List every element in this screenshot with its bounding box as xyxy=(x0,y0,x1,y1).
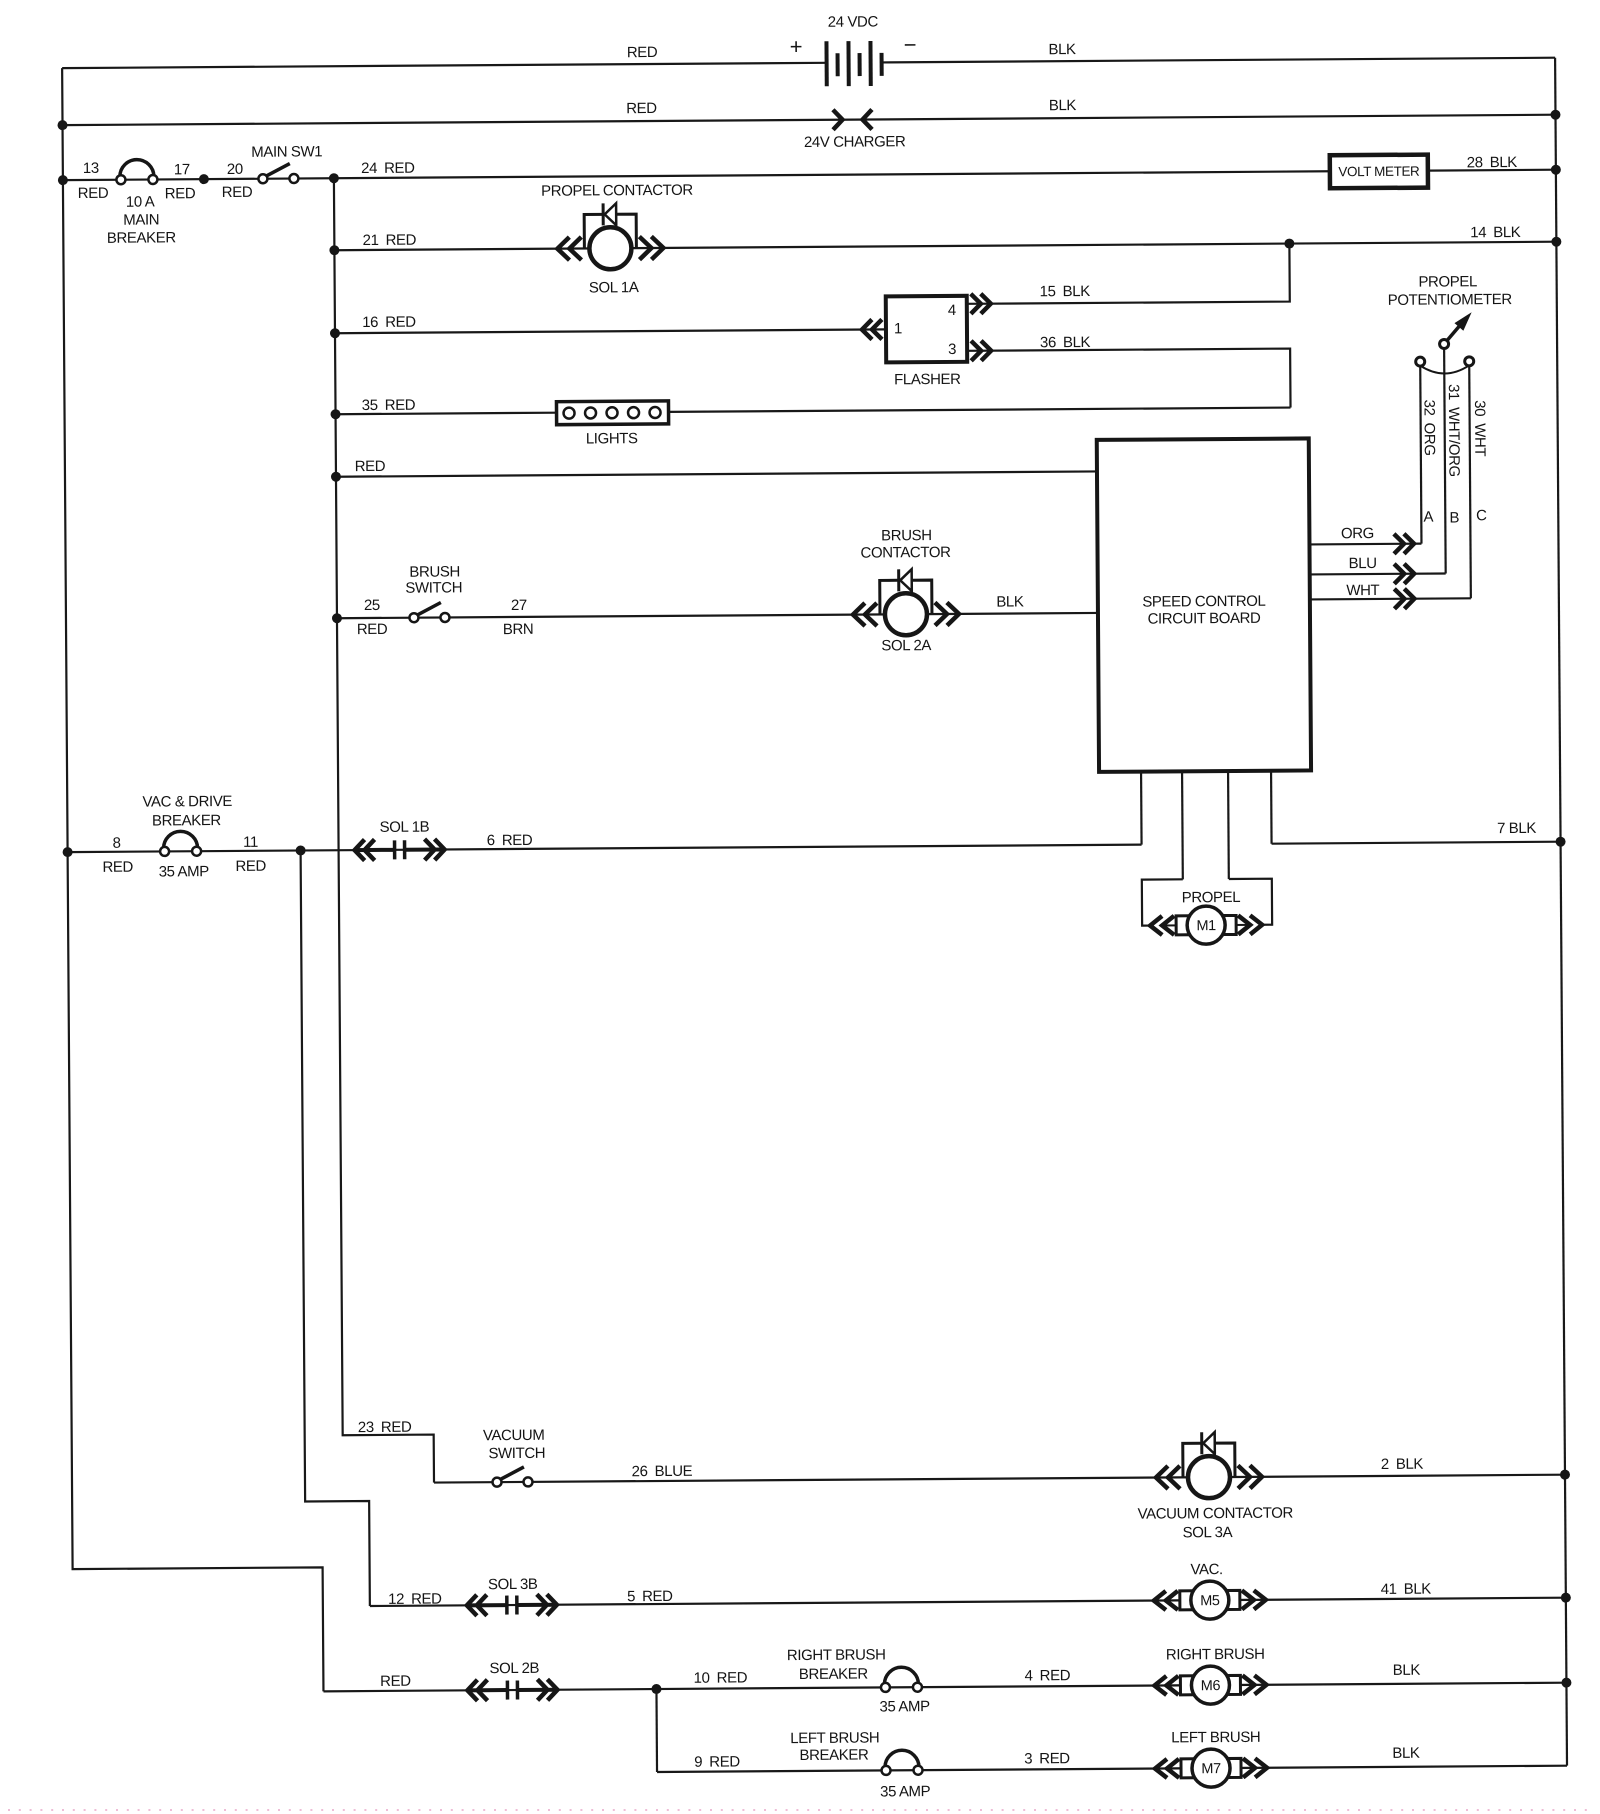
svg-text:35 AMP: 35 AMP xyxy=(159,863,210,880)
svg-text:SOL 1A: SOL 1A xyxy=(589,279,639,296)
svg-text:B: B xyxy=(1449,509,1459,526)
svg-text:17: 17 xyxy=(174,161,190,178)
wire: lights to 36 BLK vertical xyxy=(669,408,1291,412)
svg-text:CIRCUIT BOARD: CIRCUIT BOARD xyxy=(1148,610,1262,628)
svg-text:36 BLK: 36 BLK xyxy=(1040,334,1091,351)
svg-text:RED: RED xyxy=(626,100,657,117)
junction node 7 BLK at right trunk xyxy=(1556,837,1566,847)
svg-text:13: 13 xyxy=(83,160,99,177)
wire: board WHT output xyxy=(1310,598,1471,599)
svg-text:5 RED: 5 RED xyxy=(627,1588,673,1605)
board BLU connector chevrons xyxy=(1394,564,1414,584)
wire: 23 RED vacuum switch line with 26 BLUE to contactor xyxy=(434,1475,1565,1483)
svg-text:POTENTIOMETER: POTENTIOMETER xyxy=(1388,291,1513,309)
svg-text:PROPEL CONTACTOR: PROPEL CONTACTOR xyxy=(541,182,693,200)
junction node trunk B at 35 RED xyxy=(331,409,341,419)
svg-text:7 BLK: 7 BLK xyxy=(1497,820,1536,837)
svg-text:15 BLK: 15 BLK xyxy=(1040,283,1091,300)
svg-text:SOL 1B: SOL 1B xyxy=(380,819,430,836)
svg-text:BLK: BLK xyxy=(1392,1745,1420,1762)
circuit breaker VAC &amp; DRIVE BREAKER 35 AMP xyxy=(160,831,201,856)
svg-text:PROPEL: PROPEL xyxy=(1418,273,1477,290)
board WHT connector chevrons xyxy=(1394,589,1414,609)
wire: RED feed to speed control board xyxy=(336,471,1097,476)
svg-text:SPEED CONTROL: SPEED CONTROL xyxy=(1142,593,1265,611)
svg-text:25: 25 xyxy=(364,597,380,614)
motor M1 PROPEL xyxy=(1150,906,1262,945)
svg-text:SWITCH: SWITCH xyxy=(405,579,462,596)
svg-text:3: 3 xyxy=(948,341,956,358)
svg-text:CONTACTOR: CONTACTOR xyxy=(860,544,951,562)
svg-text:RED: RED xyxy=(102,859,133,876)
charger connector chevrons xyxy=(833,109,872,129)
switch VACUUM SWITCH xyxy=(492,1467,532,1487)
svg-text:BREAKER: BREAKER xyxy=(799,1747,869,1764)
svg-text:LIGHTS: LIGHTS xyxy=(586,430,638,447)
wire: 9 RED branch down xyxy=(655,1689,658,1772)
junction node trunk B at 16 RED xyxy=(330,328,340,338)
svg-text:RED: RED xyxy=(627,44,658,61)
svg-text:RED: RED xyxy=(165,185,196,202)
junction node volt meter line at right trunk xyxy=(1551,165,1561,175)
wire: 9 RED / 3 RED left brush line xyxy=(657,1766,1567,1772)
svg-text:RED: RED xyxy=(235,858,266,875)
svg-text:1: 1 xyxy=(894,320,902,337)
svg-text:BRUSH: BRUSH xyxy=(881,527,932,544)
wire: 31 WHT/ORG pot wiper wire B xyxy=(1444,348,1446,573)
svg-text:RED: RED xyxy=(222,184,253,201)
svg-text:35 RED: 35 RED xyxy=(362,397,416,414)
svg-text:SOL 2B: SOL 2B xyxy=(489,1660,539,1677)
svg-text:RED: RED xyxy=(357,621,388,638)
wire: left vertical RED trunk (battery +) xyxy=(62,66,323,1693)
svg-text:VACUUM: VACUUM xyxy=(483,1427,545,1444)
junction node trunk B at 21 RED xyxy=(329,245,339,255)
svg-text:BRUSH: BRUSH xyxy=(409,563,460,580)
wire: 30 WHT pot wire C xyxy=(1469,365,1471,598)
lights bar with 5 lamps xyxy=(556,401,668,425)
svg-text:2 BLK: 2 BLK xyxy=(1381,1456,1424,1473)
wire: volt meter to right trunk 28 BLK xyxy=(1428,169,1556,172)
contact SOL 1B xyxy=(355,839,445,861)
wire: main line from trunk to volt meter xyxy=(63,171,1330,180)
junction node main line at trunk A xyxy=(58,175,68,185)
wire: RED / 10 RED / 4 RED right brush line xyxy=(323,1683,1566,1692)
junction node trunk B at main line xyxy=(329,173,339,183)
junction node charger line at trunk A xyxy=(57,120,67,130)
wire: feed from junction 11 down to 12 RED xyxy=(301,850,370,1606)
svg-text:14 BLK: 14 BLK xyxy=(1470,224,1521,241)
wire: propel motor bracket xyxy=(1142,879,1272,926)
svg-text:BREAKER: BREAKER xyxy=(107,229,177,246)
svg-text:−: − xyxy=(904,32,917,57)
svg-text:26 BLUE: 26 BLUE xyxy=(632,1463,693,1480)
wire: 32 ORG pot wire A xyxy=(1420,366,1421,544)
wire: right vertical BLK trunk (battery -) xyxy=(1555,58,1567,1766)
svg-text:4: 4 xyxy=(948,302,956,319)
board ORG connector chevrons xyxy=(1394,534,1414,554)
svg-text:M7: M7 xyxy=(1201,1761,1221,1777)
wire: 35 RED to lights xyxy=(336,413,557,415)
wire: flasher pin 4 15 BLK up to 14 BLK line xyxy=(966,244,1289,304)
svg-text:RED: RED xyxy=(78,185,109,202)
junction node 14 BLK at right trunk xyxy=(1551,237,1561,247)
motor M6 RIGHT BRUSH xyxy=(1154,1666,1266,1705)
wire: 21 RED / 14 BLK propel contactor line xyxy=(334,242,1556,251)
svg-text:M5: M5 xyxy=(1200,1593,1220,1609)
svg-text:30 WHT: 30 WHT xyxy=(1471,400,1488,456)
svg-text:SOL 2A: SOL 2A xyxy=(881,637,931,654)
wire: top battery line RED side xyxy=(62,63,826,68)
contactor PROPEL CONTACTOR SOL 1A xyxy=(557,203,663,270)
wire: 8 RED / 11 RED / 6 RED line to board pin1 xyxy=(68,845,1142,852)
svg-text:10 RED: 10 RED xyxy=(694,1669,748,1686)
svg-text:WHT: WHT xyxy=(1346,582,1379,599)
flasher pin 3 connector chevrons xyxy=(971,341,991,361)
wire: board pin 2 xyxy=(1181,771,1184,879)
svg-text:BLU: BLU xyxy=(1349,555,1377,572)
svg-text:+: + xyxy=(790,34,803,59)
flasher input connector chevrons xyxy=(862,319,882,339)
svg-text:BREAKER: BREAKER xyxy=(152,812,222,829)
junction node trunk B at brush line xyxy=(332,613,342,623)
svg-text:12 RED: 12 RED xyxy=(388,1591,442,1608)
svg-text:BLK: BLK xyxy=(996,593,1024,610)
circuit breaker RIGHT BRUSH BREAKER 35 AMP xyxy=(881,1667,922,1692)
junction node 15 BLK joins 14 BLK xyxy=(1284,239,1294,249)
svg-text:3 RED: 3 RED xyxy=(1024,1750,1070,1767)
svg-text:11: 11 xyxy=(243,834,258,851)
svg-text:RIGHT BRUSH: RIGHT BRUSH xyxy=(787,1646,886,1664)
svg-text:20: 20 xyxy=(227,161,243,178)
wire: board pin4 7 BLK to right trunk xyxy=(1272,842,1561,844)
junction node trunk A at 8 RED xyxy=(63,847,73,857)
wire: board pin 4 xyxy=(1270,771,1273,844)
volt meter box xyxy=(1330,155,1428,189)
svg-text:SOL 3B: SOL 3B xyxy=(488,1576,538,1593)
svg-text:BREAKER: BREAKER xyxy=(799,1666,869,1683)
svg-text:VOLT METER: VOLT METER xyxy=(1338,164,1420,180)
wire: 25 RED / 27 BRN brush line to board xyxy=(337,613,1098,618)
wire: board pin 1 xyxy=(1140,772,1143,845)
svg-text:VAC & DRIVE: VAC & DRIVE xyxy=(142,793,232,811)
svg-text:LEFT BRUSH: LEFT BRUSH xyxy=(790,1729,879,1747)
circuit breaker 10A MAIN BREAKER xyxy=(116,159,157,184)
contactor BRUSH CONTACTOR SOL 2A xyxy=(853,569,959,636)
flasher box xyxy=(886,296,967,363)
switch BRUSH SWITCH xyxy=(409,602,449,622)
flasher pin 4 connector chevrons xyxy=(971,294,991,314)
svg-text:23 RED: 23 RED xyxy=(358,1419,412,1436)
svg-text:M6: M6 xyxy=(1201,1678,1221,1694)
svg-text:41 BLK: 41 BLK xyxy=(1381,1581,1432,1598)
svg-text:ORG: ORG xyxy=(1341,525,1374,542)
svg-text:35 AMP: 35 AMP xyxy=(880,1783,931,1800)
svg-text:PROPEL: PROPEL xyxy=(1182,889,1241,906)
svg-text:31 WHT/ORG: 31 WHT/ORG xyxy=(1445,384,1463,477)
junction node right trunk at 41 BLK xyxy=(1561,1593,1571,1603)
wire: vertical trunk B from MAIN SW1 down to vacuum switch line xyxy=(334,178,434,1484)
svg-text:28 BLK: 28 BLK xyxy=(1467,154,1518,171)
svg-text:24 VDC: 24 VDC xyxy=(828,13,879,30)
svg-text:LEFT BRUSH: LEFT BRUSH xyxy=(1171,1729,1260,1747)
svg-text:24V CHARGER: 24V CHARGER xyxy=(804,133,906,151)
svg-text:FLASHER: FLASHER xyxy=(894,371,961,388)
svg-text:10 A: 10 A xyxy=(126,193,155,210)
contact SOL 2B xyxy=(467,1679,557,1701)
junction node right trunk at M6 BLK xyxy=(1561,1678,1571,1688)
contact SOL 3B xyxy=(467,1594,557,1616)
svg-text:C: C xyxy=(1476,507,1487,524)
svg-text:BRN: BRN xyxy=(503,621,534,638)
switch MAIN SW1 xyxy=(258,163,298,183)
junction node 9 RED branch xyxy=(651,1684,661,1694)
wire: board pin 3 xyxy=(1227,771,1230,879)
svg-text:8: 8 xyxy=(113,835,121,852)
wire: 12 RED / 5 RED / 41 BLK vacuum motor line xyxy=(370,1598,1566,1606)
svg-text:RED: RED xyxy=(380,1673,411,1690)
wire: 24V charger line xyxy=(63,115,1556,125)
junction node right trunk at 2 BLK xyxy=(1560,1470,1570,1480)
svg-text:BLK: BLK xyxy=(1048,41,1076,58)
svg-text:RED: RED xyxy=(355,458,386,475)
junction node (wire 17/20) xyxy=(199,174,209,184)
junction node trunk B at board RED feed xyxy=(331,472,341,482)
svg-text:21 RED: 21 RED xyxy=(363,232,417,249)
svg-text:RIGHT BRUSH: RIGHT BRUSH xyxy=(1166,1646,1265,1664)
svg-text:35 AMP: 35 AMP xyxy=(879,1698,930,1715)
motor M5 VAC. xyxy=(1154,1581,1266,1620)
svg-text:SOL 3A: SOL 3A xyxy=(1183,1524,1233,1541)
wire: 16 RED to flasher pin 1 xyxy=(335,329,886,333)
svg-text:24 RED: 24 RED xyxy=(361,160,415,177)
svg-text:4 RED: 4 RED xyxy=(1025,1667,1071,1684)
svg-text:BLK: BLK xyxy=(1049,97,1077,114)
svg-text:BLK: BLK xyxy=(1393,1662,1421,1679)
wire: flasher pin 3 36 BLK down to lights line xyxy=(967,349,1290,410)
svg-text:27: 27 xyxy=(511,597,527,614)
battery 24 VDC xyxy=(826,41,881,86)
wire: board ORG output xyxy=(1309,543,1421,546)
svg-text:VACUUM CONTACTOR: VACUUM CONTACTOR xyxy=(1138,1505,1294,1523)
svg-text:MAIN SW1: MAIN SW1 xyxy=(251,143,322,160)
potentiometer PROPEL POTENTIOMETER xyxy=(1415,315,1473,374)
circuit breaker LEFT BRUSH BREAKER 35 AMP xyxy=(881,1750,922,1775)
svg-text:SWITCH: SWITCH xyxy=(488,1445,545,1462)
junction node charger line at right trunk xyxy=(1550,110,1560,120)
junction node feed to SOL 3B line xyxy=(296,845,306,855)
svg-text:A: A xyxy=(1423,509,1433,526)
svg-text:6 RED: 6 RED xyxy=(487,832,533,849)
motor M7 LEFT BRUSH xyxy=(1155,1749,1267,1788)
svg-text:32 ORG: 32 ORG xyxy=(1420,400,1437,456)
svg-text:9 RED: 9 RED xyxy=(694,1753,740,1770)
wire: board BLU output xyxy=(1310,572,1446,575)
svg-text:M1: M1 xyxy=(1196,918,1216,934)
svg-text:MAIN: MAIN xyxy=(123,211,159,228)
speed control circuit board U1 xyxy=(1097,438,1311,771)
wire: top battery line BLK side xyxy=(881,58,1555,63)
contactor VACUUM CONTACTOR SOL 3A xyxy=(1156,1432,1262,1499)
svg-text:VAC.: VAC. xyxy=(1190,1561,1222,1578)
svg-text:16 RED: 16 RED xyxy=(362,314,416,331)
